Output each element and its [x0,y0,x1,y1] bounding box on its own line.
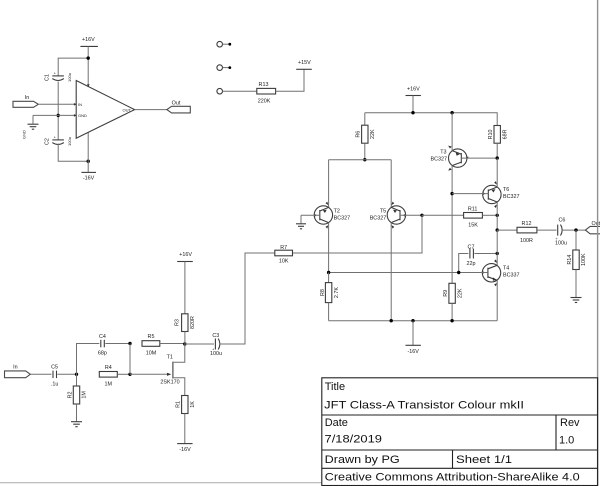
svg-text:+16V: +16V [179,252,192,258]
resistor R3 820R [174,314,196,332]
svg-text:T3: T3 [440,150,446,156]
svg-text:.1u: .1u [51,381,59,387]
resistor R5 10M [142,334,160,357]
capacitor C1 100u [45,71,72,82]
wire T4 base row [329,272,488,274]
svg-text:BC327: BC327 [370,215,386,221]
wire op-amp output [135,109,167,111]
svg-text:In: In [25,95,30,101]
wire C1 to C2 column [57,82,59,140]
svg-text:100u: 100u [210,351,222,357]
svg-text:15K: 15K [468,223,478,229]
junction output node R12 [496,228,499,231]
resistor R1 1K [176,396,196,414]
capacitor C3 100u [185,333,222,357]
junction R4/gate column [128,373,131,376]
resistor R12 100R [517,221,537,244]
svg-text:2.7K: 2.7K [334,287,340,298]
transistor T4 BC337 [482,259,519,286]
wire bottom rail to -16V [412,321,414,346]
port In (JFET stage) [5,364,31,377]
wire C5 to junction [58,373,77,375]
svg-text:Title: Title [325,381,345,393]
svg-text:100u: 100u [67,73,72,82]
svg-text:R5: R5 [148,334,155,340]
svg-text:R2: R2 [68,391,74,398]
resistor R2 1M [68,374,88,404]
capacitor C6 100u [555,218,567,247]
svg-text:C7: C7 [468,244,475,250]
svg-text:R9: R9 [443,290,449,297]
junction rail/+16V [411,111,414,114]
svg-text:100u: 100u [555,241,567,247]
title block Date/Rev divider [555,415,557,450]
wire T2 collector vertical [328,160,330,208]
svg-text:Sheet 1/1: Sheet 1/1 [456,454,512,466]
svg-text:100u: 100u [67,137,72,146]
resistor R14 100K [567,230,587,269]
ground (below R2) [71,404,82,427]
wire T4 emitter down [496,280,498,320]
svg-text:+15V: +15V [298,60,311,66]
svg-text:C4: C4 [99,334,106,340]
svg-text:+: + [54,71,57,76]
power +16V supply (JFET drain) [177,252,193,262]
junction C4/R5 column [128,342,131,345]
wire T6 base [452,193,488,195]
capacitor C4 68p [98,334,107,357]
svg-text:22p: 22p [467,261,476,267]
capacitor C2 100u [45,135,72,146]
wire R11 to T6 emitter column [482,214,497,216]
title block border [322,378,598,486]
junction R6/collector row [363,158,366,161]
wire junction up to C4 row [77,344,100,375]
wire T6 collector up [496,158,498,187]
wire R5 to drain node [160,343,185,345]
svg-text:BC327: BC327 [334,215,350,221]
svg-text:7/18/2019: 7/18/2019 [325,433,383,445]
svg-text:IN: IN [78,102,82,107]
junction R10/T3 base/T6 collector [496,156,499,159]
svg-text:22K: 22K [370,129,376,139]
svg-text:R3: R3 [174,319,180,326]
svg-text:T5: T5 [380,209,386,215]
transistor T6 BC327 [483,181,520,208]
svg-text:100K: 100K [581,253,587,266]
junction R11/T6 emitter [496,214,499,217]
wire +16V drop to rail [412,96,414,113]
resistor R8 2.7K [320,273,340,321]
power -16V supply (JFET source) [177,444,192,454]
junction T2 emitter/R8 [327,271,330,274]
svg-text:GND: GND [78,113,87,118]
wire R3 to drain node [184,332,186,345]
wire C6 to out port [562,229,585,231]
resistor R4 1M [99,365,117,387]
wire T4 collector [496,230,498,265]
svg-text:Out: Out [172,100,181,106]
svg-text:R13: R13 [259,82,269,88]
svg-text:BC327: BC327 [503,194,519,200]
title block Drawn/Sheet divider [452,450,454,468]
junction rail/T3 emitter [450,111,453,114]
svg-text:T6: T6 [503,187,509,193]
wire T5 emitter vertical [390,223,392,321]
svg-text:C1: C1 [45,74,51,81]
port In (op-amp input) [13,95,38,107]
resistor R7 10K [275,245,293,265]
svg-text:C5: C5 [51,364,58,370]
wire R11 row right [422,214,464,216]
junction T5 base/R11 row [420,214,423,217]
title block row divider 1 [322,414,598,416]
port Out (op-amp output) [167,100,190,113]
svg-text:100R: 100R [520,238,533,244]
wire T3 base to R10 node [461,157,497,159]
svg-text:10K: 10K [279,259,289,265]
pin P3 [217,88,223,94]
power +16V supply (op-amp V+) [80,37,98,46]
ground GND (op-amp) [22,115,39,139]
op-amp U1 [74,81,135,139]
svg-text:R7: R7 [280,245,287,251]
title block row divider 3 [322,467,598,469]
svg-text:-16V: -16V [179,447,191,453]
power +16V supply (amp rail) [406,86,421,95]
svg-text:+: + [54,135,57,140]
svg-text:R10: R10 [488,129,494,139]
svg-text:1K: 1K [190,401,196,408]
svg-text:T1: T1 [167,355,173,361]
junction V+ / C1 [87,56,90,59]
transistor T3 BC327 [431,146,469,171]
pin P1 [217,41,231,47]
svg-text:C6: C6 [558,218,565,224]
junction out/R14 [574,228,577,231]
wire In to op-amp [38,103,76,105]
svg-text:C2: C2 [45,138,51,145]
svg-text:C3: C3 [212,333,219,339]
svg-text:R11: R11 [468,207,478,213]
transistor T2 BC327 [314,202,350,229]
svg-text:2SK170: 2SK170 [160,380,179,386]
svg-text:68p: 68p [98,351,107,357]
svg-text:BC337: BC337 [503,272,519,278]
svg-text:Rev: Rev [560,417,580,429]
transistor T1 2SK170 (JFET) [130,344,185,396]
junction R9/bottom rail [450,319,453,322]
title block row divider 2 [322,449,598,451]
ground (below R14) [571,270,582,303]
wire +16V to R3 [184,262,186,314]
svg-text:R14: R14 [567,255,573,265]
wire T3 collector down [451,166,453,284]
svg-text:In: In [13,364,18,370]
wire gnd row [33,114,76,116]
wire R4 to junction [117,373,130,375]
pin P2 [217,65,231,71]
svg-text:Out: Out [592,221,600,227]
svg-text:10M: 10M [146,351,157,357]
wire R10 to T3 base node [496,143,498,158]
resistor R13 220K [257,82,276,104]
wire R6 to collector row [364,143,366,160]
port Out (amp output) [585,221,600,234]
svg-text:GND: GND [22,130,27,139]
svg-text:T4: T4 [503,266,509,272]
junction -16V/bottom rail [411,319,414,322]
wire R12 to C6 [537,229,557,231]
svg-text:220K: 220K [258,98,271,104]
svg-text:Creative Commons Attribution-S: Creative Commons Attribution-ShareAlike … [325,471,580,483]
svg-text:Date: Date [325,417,348,429]
svg-text:BC327: BC327 [431,156,447,162]
capacitor C5 .1u [51,364,59,387]
wire C4-R4 vertical link [129,344,131,375]
junction C5/R2/R4 [75,373,78,376]
svg-text:1M: 1M [81,391,87,399]
power -16V supply (amp rail) [406,345,421,355]
resistor R10 68R [488,126,508,144]
svg-text:JFT Class-A Transistor Colour: JFT Class-A Transistor Colour mkII [324,400,524,412]
wire pin3 to R13 [223,90,257,92]
svg-text:1M: 1M [105,381,113,387]
frame right line [597,0,599,486]
wire C3 up to R7 row [220,253,275,344]
resistor R11 15K [464,207,483,229]
wire op-amp V- vertical [87,132,89,172]
svg-text:R8: R8 [320,289,326,296]
svg-text:1.0: 1.0 [559,434,574,446]
resistor R6 22K [356,125,376,143]
wire V+ vertical into op-amp [87,46,89,87]
power +15V supply [296,60,312,69]
wire T2 base [301,214,320,216]
svg-text:R6: R6 [356,131,362,138]
wire C2 bottom to V- [58,144,88,162]
wire T2 emitter vertical [328,223,330,273]
wire collector row T2-T5 [329,159,392,161]
svg-text:R1: R1 [176,401,182,408]
ground (T2 base) [296,215,306,229]
wire C1 top branch [58,58,88,75]
wire T5 collector vertical [390,160,392,208]
svg-text:68R: 68R [502,129,508,139]
svg-text:22K: 22K [458,288,464,298]
svg-text:+16V: +16V [82,37,95,43]
wire T3 emitter up to rail [451,113,453,151]
svg-text:Drawn by PG: Drawn by PG [325,454,400,466]
svg-text:T2: T2 [334,209,340,215]
svg-text:R4: R4 [105,365,112,371]
wire bias row down and left to R7 [293,215,423,253]
junction T3 collector/T6 base [450,192,453,195]
frame bottom line [0,482,322,484]
wire C4 to junction [105,343,130,345]
svg-text:R12: R12 [522,221,532,227]
svg-text:-16V: -16V [83,176,95,182]
junction T5 emitter/bottom rail [390,319,393,322]
wire T5 base to bias row [400,214,422,216]
wire rail to R6 [364,113,366,126]
wire output node to R12 [497,229,517,231]
resistor R9 22K [443,283,463,320]
svg-text:820R: 820R [190,316,196,329]
junction drain node R3/R5/C3 [183,342,186,345]
wire R13 to +15V [276,69,304,91]
wire bottom rail [329,320,498,322]
svg-text:OUT: OUT [123,107,132,112]
junction C7/T4 collector [496,252,499,255]
svg-text:-16V: -16V [408,349,420,355]
wire top rail [365,113,497,126]
wire R1 to -16V [184,414,186,444]
junction V- [87,160,90,163]
junction gnd row [57,114,60,117]
wire T6 emitter down [496,202,498,230]
svg-text:+16V: +16V [407,86,420,92]
power -16V supply (op-amp V-) [81,172,96,181]
capacitor C7 22p [459,244,498,272]
wire In to C5 [30,373,51,375]
transistor T5 BC327 [370,202,406,229]
junction T4 base/C7 [457,271,460,274]
